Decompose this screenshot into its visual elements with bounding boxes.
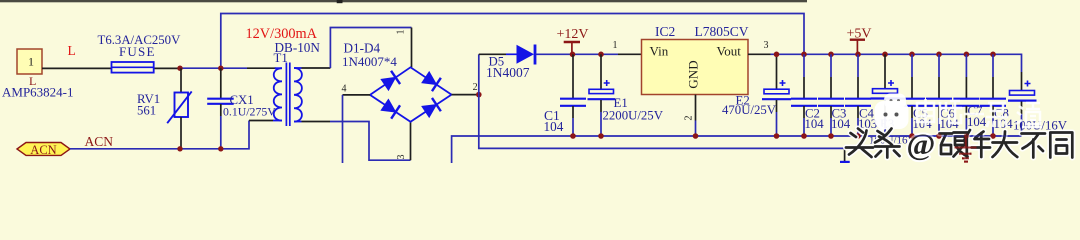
svg-text:104: 104 [805,117,825,131]
svg-text:2200U/25V: 2200U/25V [603,109,664,123]
label C5 / 104 [913,107,933,132]
bridge pin 4 stub and wire down [343,95,371,163]
wire ACN to transformer primary bottom [70,121,249,149]
svg-text:Vout: Vout [717,44,742,59]
junction on L at CX1 [218,66,223,71]
svg-text:104: 104 [831,117,851,131]
junction +12V/C1 [570,52,576,58]
diode D3 (left to bottom) [380,98,400,119]
svg-text:1N4007: 1N4007 [486,65,530,80]
capacitor C2 [791,54,817,136]
junction E1 [598,52,604,58]
wire L: fuse to transformer primary [180,67,276,69]
svg-text:561: 561 [137,104,156,118]
capacitor C7 [953,54,979,136]
top border line [0,0,807,3]
power +5V [847,26,872,54]
capacitor C3 [818,54,844,136]
connector pin 1 stub [42,67,112,69]
svg-text:104: 104 [544,119,564,134]
label C8 / 104 [994,107,1014,132]
svg-text:2: 2 [473,82,478,93]
svg-text:3: 3 [764,40,769,51]
wire DC ground rail [452,136,1022,163]
electrolytic E2 [762,54,791,136]
svg-text:1: 1 [28,55,34,69]
IC2 Vout pin stub [748,53,771,55]
svg-text:1: 1 [396,30,407,35]
junctions on ground rail [570,133,996,139]
junctions on +5V rail [774,52,996,58]
wire: L top rail from CX1 junction to +5V rail drop [221,14,804,69]
watermark outline text dian lu yi dian tong [917,99,1042,127]
regulator IC2 L7805CV box [642,40,749,95]
label C7 / 104 [967,104,987,129]
transformer T1 core [286,63,289,127]
capacitor C4 [845,54,871,136]
power +12V [557,27,589,55]
ground rail showing through watermark [900,133,1022,138]
diode D2 (top to right) [421,71,441,92]
junction ACN/RV1 [177,146,182,151]
capacitor C5 [899,54,925,136]
electrolytic E3 [871,54,900,136]
label C2 / 104 [805,107,825,132]
capacitor CX1 [207,68,234,149]
IC2 GND pin wire down [695,95,697,136]
svg-text:104: 104 [967,115,987,129]
wire secondary top to bridge pin 1 [302,28,412,69]
diode D1 (left to top) [380,71,400,92]
svg-text:1: 1 [613,40,618,51]
svg-text:@: @ [907,127,936,162]
svg-text:+5V: +5V [847,26,872,41]
svg-text:+12V: +12V [557,27,589,42]
svg-text:IC2: IC2 [655,24,675,39]
bridge pin 2 stub [452,94,479,96]
capacitor C8 [980,54,1006,136]
fuse F1 body [112,62,181,73]
svg-text:3: 3 [396,155,407,160]
capacitor C6 [926,54,952,136]
label C4 / 103 [858,107,877,132]
wire pin2 up to D5 [478,54,480,94]
svg-text:0.1U/275V: 0.1U/275V [223,104,276,118]
label C3 / 104 [831,107,851,132]
watermark text toutiao at yingjian da bu tong [846,127,1072,162]
connector P1 AMP63824-1 [17,49,42,74]
wire pin2 down to gnd [479,95,845,161]
svg-text:ACN: ACN [85,134,114,149]
junction bridge pin 2 [476,92,482,98]
electrolytic E1 [588,54,616,136]
power port ACN [17,143,70,157]
wire +12V rail to IC2 [573,53,642,55]
svg-text:L: L [68,43,76,58]
svg-text:470U/25V: 470U/25V [722,103,777,117]
svg-text:ACN: ACN [30,143,56,157]
svg-text:AMP63824-1: AMP63824-1 [2,85,74,100]
ground symbol showing through watermark [955,136,977,162]
ground symbol (power gnd, dark red) [955,136,977,162]
wire +5V rail [771,54,1022,72]
diode D5 [479,45,573,65]
varistor RV1 [167,68,192,149]
junction ACN/CX1 [218,146,223,151]
label C6 / 104 [940,107,960,132]
ground bar (cut off) [840,161,850,163]
bridge rectifier D1-D4 diamond [370,67,452,122]
svg-text:GND: GND [686,60,701,88]
svg-text:Vin: Vin [650,44,669,59]
svg-text:4: 4 [342,84,347,95]
svg-text:104: 104 [994,117,1014,131]
svg-text:L7805CV: L7805CV [695,24,749,39]
watermark logo bubbles [875,94,909,133]
diode D4 (bottom to right) [421,98,441,119]
wire secondary bottom to bridge pin 3 [302,122,411,161]
wire primary bottom pin [249,120,273,122]
transformer T1 primary winding [273,68,282,120]
junction on L at RV1 [177,66,182,71]
transformer T1 secondary winding [294,68,302,122]
svg-text:FUSE: FUSE [119,44,156,59]
svg-text:1N4007*4: 1N4007*4 [342,54,397,69]
electrolytic E4 [1008,72,1037,136]
capacitor C1 [560,54,586,136]
svg-text:2: 2 [684,116,695,121]
